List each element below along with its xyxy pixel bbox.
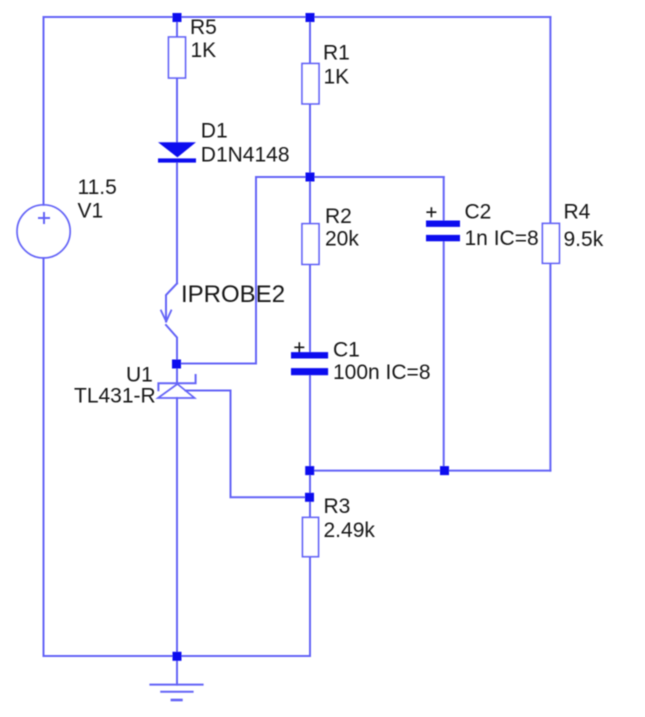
wire R5 top lead: [176, 17, 178, 37]
node R3 top: [305, 493, 314, 502]
wire R1 to R2: [309, 104, 311, 224]
wire C2 top lead: [443, 177, 445, 221]
wire D1 to IPROBE2: [176, 163, 178, 284]
wire U1 REF to R3 top: [186, 391, 310, 498]
svg-text:1K: 1K: [324, 66, 350, 89]
wire left vertical upper: [43, 17, 45, 205]
wire right vertical R4 bottom: [549, 263, 551, 470]
wire IPROBE2 zigzag: [166, 283, 177, 364]
node C2 bottom: [440, 466, 449, 475]
resistor R5: [169, 37, 186, 78]
ground: [149, 685, 203, 700]
node junction dots: [172, 13, 449, 661]
svg-text:D1N4148: D1N4148: [201, 144, 290, 167]
wire node to U1 cathode: [176, 364, 178, 384]
resistor R3: [303, 517, 319, 556]
svg-text:U1: U1: [126, 364, 153, 387]
wire C2 bottom lead: [443, 241, 445, 470]
svg-text:R3: R3: [324, 495, 351, 518]
svg-text:IPROBE2: IPROBE2: [181, 281, 285, 308]
svg-text:C2: C2: [465, 201, 492, 224]
node ground: [173, 652, 182, 661]
wire middle vertical R1 top lead: [309, 17, 311, 64]
svg-text:R4: R4: [564, 201, 591, 224]
wire C1 to R3: [309, 375, 311, 517]
svg-text:C1: C1: [333, 339, 360, 362]
svg-text:1n IC=8: 1n IC=8: [465, 227, 539, 250]
resistor R1: [302, 64, 319, 104]
wire R2 to C1: [309, 264, 311, 352]
wire R5 to D1: [176, 78, 178, 142]
node R5 top: [173, 13, 182, 22]
wire right vertical R4 top: [549, 17, 551, 223]
capacitor C2: [426, 221, 460, 242]
node U1 cathode: [172, 360, 181, 369]
svg-text:TL431-R: TL431-R: [74, 385, 156, 408]
diode D1: [158, 142, 196, 162]
svg-text:R5: R5: [190, 16, 217, 39]
resistor R2: [302, 224, 319, 265]
node R1 top: [306, 13, 315, 22]
wire top horizontal: [44, 16, 551, 18]
wire left vertical lower: [43, 258, 45, 656]
svg-text:D1: D1: [201, 120, 228, 143]
svg-text:R1: R1: [323, 42, 350, 65]
resistor R4: [542, 223, 559, 263]
op-amp U1 TL431 symbol: [158, 374, 196, 398]
svg-text:20k: 20k: [325, 228, 359, 251]
plus mark C2: [426, 207, 436, 217]
svg-text:9.5k: 9.5k: [564, 228, 604, 251]
wire lower horizontal y470: [310, 470, 550, 472]
wire bottom horizontal: [44, 655, 311, 657]
svg-text:100n IC=8: 100n IC=8: [333, 361, 431, 384]
node R3 upper: [305, 466, 314, 475]
svg-text:R2: R2: [325, 205, 352, 228]
node A: [306, 173, 315, 182]
svg-text:V1: V1: [78, 200, 104, 223]
voltage source V1: [17, 205, 70, 258]
wire ground stem: [176, 656, 178, 685]
plus mark C1: [294, 342, 304, 352]
wire IPROBE2 arrowhead: [161, 311, 171, 322]
svg-text:1K: 1K: [191, 39, 217, 62]
wire node A to U1 node: [177, 177, 256, 364]
capacitor C1: [291, 352, 328, 375]
wire R3 bottom lead: [309, 557, 311, 656]
wire U1 anode down: [176, 398, 178, 656]
wire node A horizontal: [256, 176, 444, 178]
svg-text:11.5: 11.5: [78, 176, 117, 199]
svg-text:2.49k: 2.49k: [324, 519, 376, 542]
